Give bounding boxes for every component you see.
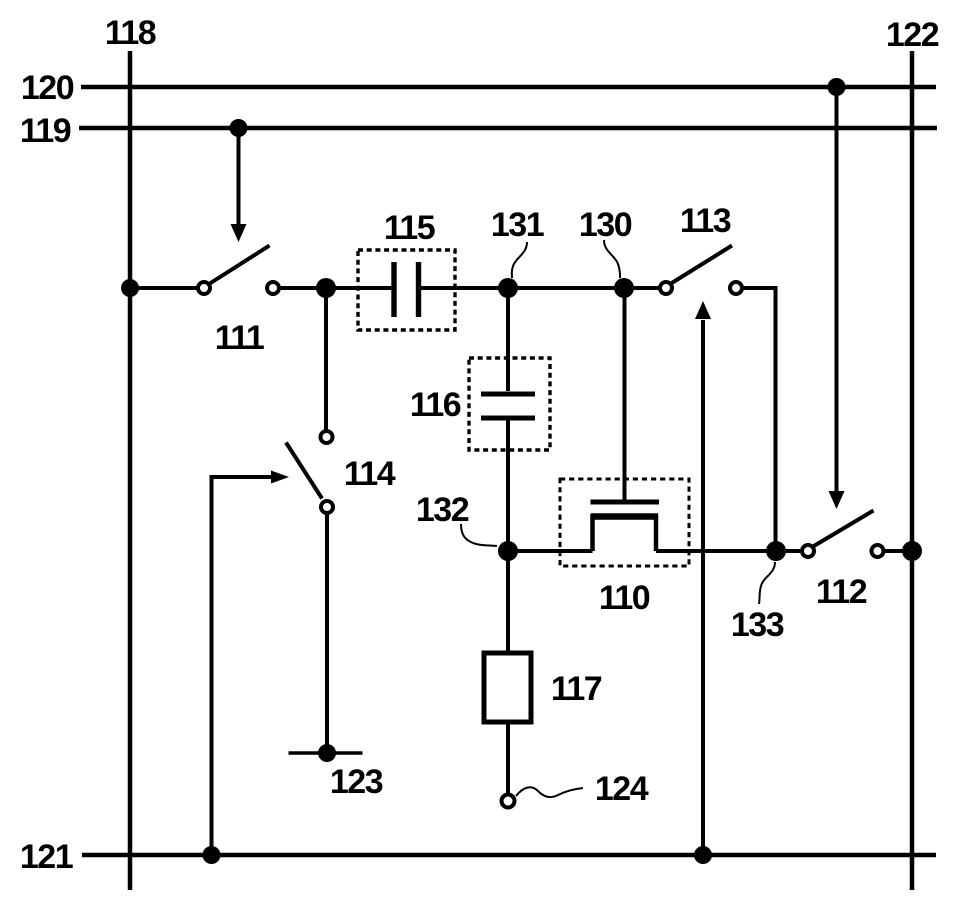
- wire: horizontal bus line 121: [82, 853, 936, 858]
- svg-text:130: 130: [579, 206, 632, 244]
- switch 113: [660, 246, 742, 295]
- wire: node 132 to transistor: [508, 549, 593, 553]
- svg-text:119: 119: [20, 112, 71, 150]
- wire: node 130 to switch 113: [624, 286, 659, 290]
- wire: arrow from line 119 down toward switch 111: [237, 128, 241, 226]
- svg-text:122: 122: [886, 16, 939, 54]
- label 131 leader: [512, 242, 527, 278]
- capacitor C116 dashed box: [469, 358, 550, 450]
- node 132: [498, 541, 518, 561]
- svg-text:132: 132: [416, 491, 469, 529]
- wire: node at 326 down to switch 114: [324, 288, 328, 430]
- svg-text:123: 123: [330, 763, 383, 801]
- wire: capacitor 116 to node 132: [506, 420, 510, 551]
- label 130 leader: [604, 240, 620, 278]
- capacitor C115 dashed box: [358, 250, 455, 330]
- svg-text:116: 116: [410, 386, 461, 424]
- wire: horizontal bus line 120: [81, 85, 936, 90]
- svg-text:117: 117: [551, 670, 602, 708]
- label 132 leader: [461, 524, 497, 546]
- capacitor C115: [394, 262, 419, 317]
- wire: arrow from line 121 to switch 114: [212, 477, 273, 855]
- wire: vertical bus line 122: [910, 51, 915, 890]
- svg-text:131: 131: [491, 206, 544, 244]
- switch 111: [198, 246, 279, 295]
- node 123: [318, 744, 336, 762]
- wire: arrow from line 120 down toward switch 112: [835, 87, 839, 492]
- node: junction dot at switch 114 branch: [316, 278, 336, 298]
- svg-text:112: 112: [816, 573, 867, 611]
- wire: crossbar at node 123: [289, 751, 363, 755]
- switch 112: [786, 511, 912, 558]
- svg-text:118: 118: [105, 14, 156, 52]
- node 130: [614, 278, 634, 298]
- wire: line 118 to switch 111: [130, 286, 197, 290]
- svg-text:110: 110: [599, 579, 650, 617]
- terminal 124: [502, 795, 515, 808]
- wire: resistor 117 to terminal 124: [506, 722, 510, 794]
- wire: vertical bus line 118: [128, 51, 133, 890]
- wire: switch 111 to capacitor 115: [281, 286, 393, 290]
- svg-text:113: 113: [680, 202, 731, 240]
- node: junction dot on line 121 for up arrow: [694, 846, 712, 864]
- wire: node 131 down to capacitor 116: [506, 288, 510, 391]
- wire: switch 113 to node 133 (corner): [744, 288, 776, 551]
- node: junction dot on line 118 at switch 111 branch: [121, 279, 139, 297]
- svg-text:114: 114: [344, 455, 396, 493]
- node: junction dot on line 121 feeding arrow to switch 114: [203, 846, 221, 864]
- node: junction dot on line 122 at switch 112: [902, 541, 922, 561]
- wire: horizontal bus line 119: [79, 126, 937, 131]
- wire: transistor to node 133: [656, 549, 776, 553]
- node 131: [498, 278, 518, 298]
- svg-text:121: 121: [20, 838, 73, 876]
- svg-text:111: 111: [215, 319, 264, 357]
- wire: up arrow from line 121: [701, 320, 705, 855]
- transistor U110 dashed box: [560, 479, 689, 566]
- svg-text:133: 133: [731, 606, 784, 644]
- node: junction dot on line 119 feeding arrow to switch 111: [230, 119, 248, 137]
- wire: node 131 to node 130: [508, 286, 624, 290]
- node: junction dot on line 120 feeding arrow to switch 112: [828, 78, 846, 96]
- node 133: [766, 541, 786, 561]
- wire: capacitor 115 to node 131: [421, 286, 508, 290]
- svg-text:120: 120: [21, 69, 74, 107]
- label 133 leader: [759, 562, 775, 604]
- svg-text:124: 124: [595, 770, 649, 808]
- wire: node 132 down to resistor 117: [506, 551, 510, 653]
- wire: switch 114 to node 123: [325, 515, 329, 754]
- resistor R117: [484, 653, 531, 722]
- switch 114: [286, 431, 333, 513]
- capacitor C116: [481, 394, 535, 418]
- label 124 leader: [516, 787, 583, 797]
- transistor U110: [591, 288, 660, 551]
- svg-text:115: 115: [384, 209, 435, 247]
